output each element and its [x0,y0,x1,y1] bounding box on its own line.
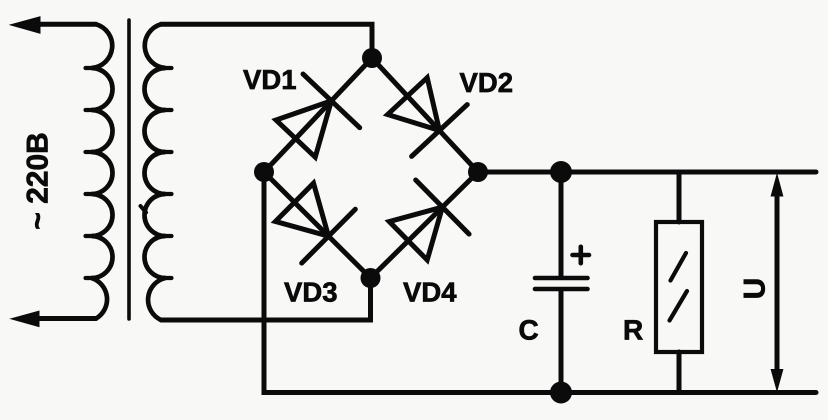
svg-text:VD2: VD2 [460,67,514,98]
U measurement arrow line [775,191,780,375]
svg-text:C: C [519,315,539,346]
node: C top junction [550,161,572,183]
svg-text:VD3: VD3 [284,277,338,308]
svg-text:U: U [739,278,772,300]
resistor R bottom lead [677,352,682,393]
diode VD4 (bottom node toward right node) [382,180,470,268]
resistor R slash marks [670,253,688,321]
wire: bridge right node to top rail [478,170,816,175]
diode VD2 (top node toward right node) [380,70,468,156]
resistor R body [656,222,702,352]
node: bridge left junction [254,162,274,182]
wire: bridge left node down and bottom rail [264,172,816,393]
svg-text:~ 220В: ~ 220В [22,132,55,230]
diode VD3 (left node toward bottom node) [268,175,356,263]
bridge edge: top node to right node [372,58,478,172]
secondary winding cusp hooks [165,66,172,70]
node: bridge top junction [362,48,382,68]
wire: primary bottom lead to arrow [30,316,96,321]
arrowhead: primary top (AC input) [11,17,41,33]
capacitor plus sign [573,247,590,263]
small pen flick on secondary cusp [141,206,147,213]
U arrowhead bottom [771,370,783,391]
U arrowhead top [771,175,783,197]
capacitor C plates [535,276,588,281]
transformer secondary winding [145,24,166,320]
bridge edge: left node to bottom node [264,172,371,278]
primary winding cusp hooks [86,66,93,70]
bridge edge: bottom node to right node [371,172,479,278]
transformer primary winding [92,24,113,318]
wire: primary top lead to arrow [30,22,96,27]
svg-text:R: R [623,315,643,346]
diode VD1 (left node toward top node) [267,74,359,165]
bridge edge: left node to top node [264,58,372,172]
capacitor C top lead [559,172,564,276]
capacitor C bottom lead [559,291,564,393]
resistor R top lead [677,172,682,222]
svg-text:VD4: VD4 [403,277,457,308]
svg-text:VD1: VD1 [243,64,297,95]
arrowhead: primary bottom (AC input) [11,311,39,326]
node: bridge right junction [468,162,488,182]
wire: secondary bottom to bridge bottom node [161,278,371,320]
transformer core [127,20,131,319]
node: C bottom junction [550,382,572,404]
node: bridge bottom junction [361,268,381,288]
wire: secondary top to bridge top node [161,24,372,58]
